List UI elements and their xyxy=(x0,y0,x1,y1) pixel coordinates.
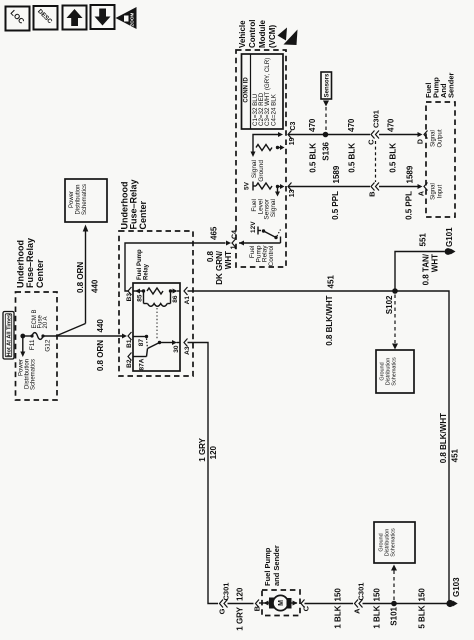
node at 5V resistor xyxy=(276,185,279,188)
pin 1 connector C4 xyxy=(226,230,239,249)
node 86 xyxy=(169,289,172,292)
svg-text:B2: B2 xyxy=(126,359,133,368)
connector C301 pin C xyxy=(367,110,381,145)
svg-text:1 GRY: 1 GRY xyxy=(235,606,244,630)
svg-text:451: 451 xyxy=(326,275,335,289)
svg-text:ZOOM: ZOOM xyxy=(130,13,135,27)
arrow to power distribution xyxy=(20,336,25,357)
svg-text:WHT: WHT xyxy=(430,254,439,272)
svg-text:Control: Control xyxy=(248,20,257,48)
button scroll up xyxy=(63,6,87,30)
VCM arrow icon xyxy=(278,28,298,46)
svg-text:20 A: 20 A xyxy=(43,316,49,328)
svg-text:Center: Center xyxy=(35,259,45,288)
svg-text:Sensors: Sensors xyxy=(324,73,330,97)
ground distribution schematics box (S101) xyxy=(374,522,415,563)
svg-text:(VCM): (VCM) xyxy=(268,25,277,48)
connector C301 pin G xyxy=(218,583,231,615)
svg-text:1 GRY: 1 GRY xyxy=(198,437,207,461)
svg-text:A: A xyxy=(352,608,361,614)
svg-text:13: 13 xyxy=(289,189,296,197)
wire 0.8 BLK/WHT 451 S102 to G103 xyxy=(395,291,450,604)
wire 5 BLK 150 S101 to G103 xyxy=(394,603,447,605)
svg-text:Fuel Pump: Fuel Pump xyxy=(137,249,143,280)
resistor signal ground xyxy=(256,145,272,151)
svg-text:30: 30 xyxy=(173,345,180,353)
wire 0.8 TAN/WHT 551 S102 to G101 xyxy=(395,252,445,292)
svg-text:0.8: 0.8 xyxy=(206,250,215,262)
svg-text:and Sender: and Sender xyxy=(272,545,281,586)
svg-text:150: 150 xyxy=(333,588,342,602)
fuel pump relay box xyxy=(133,283,180,371)
svg-text:0.8 BLK/WHT: 0.8 BLK/WHT xyxy=(325,295,334,345)
svg-text:5V: 5V xyxy=(244,181,251,190)
svg-text:M: M xyxy=(278,600,285,606)
5V supply xyxy=(244,181,257,190)
svg-text:C: C xyxy=(367,139,376,145)
vehicle control module U1 label xyxy=(238,19,277,48)
svg-text:86: 86 xyxy=(172,295,179,303)
svg-text:C301: C301 xyxy=(372,110,381,128)
svg-text:551: 551 xyxy=(419,233,428,247)
wire 1 GRY 120 C301 to pump B xyxy=(228,603,254,605)
pin B3 connector xyxy=(126,287,133,301)
signal ground arrow xyxy=(251,148,256,158)
switch lever xyxy=(148,341,162,349)
svg-text:Relay: Relay xyxy=(143,263,149,280)
dashed link S101 to ground schematics xyxy=(391,565,397,601)
svg-text:Schematics: Schematics xyxy=(390,528,396,557)
svg-text:Schematics: Schematics xyxy=(82,184,88,215)
svg-text:Signal: Signal xyxy=(270,198,277,217)
label 0.8 TAN/ WHT xyxy=(421,253,439,285)
button LOC xyxy=(6,7,30,31)
svg-text:1: 1 xyxy=(231,245,238,249)
svg-text:G101: G101 xyxy=(445,227,454,247)
pin 13 connector xyxy=(288,183,296,198)
underhood fuse-relay center label (relay) xyxy=(119,179,148,229)
svg-text:C3: C3 xyxy=(290,121,297,130)
svg-text:87A: 87A xyxy=(139,358,146,370)
svg-text:Fuse–Relay: Fuse–Relay xyxy=(25,238,35,288)
pin B1 connector xyxy=(126,332,133,348)
node 85 xyxy=(142,289,145,292)
svg-text:440: 440 xyxy=(96,319,105,333)
svg-text:S136: S136 xyxy=(322,141,331,160)
node feed junction xyxy=(20,334,25,339)
relay coil winding xyxy=(144,291,171,306)
relay control internal wire xyxy=(239,241,281,246)
svg-text:0.5 PPL: 0.5 PPL xyxy=(331,191,340,220)
12V supply xyxy=(250,221,261,235)
button zoom triangle xyxy=(116,7,137,29)
switch contact 87 xyxy=(133,335,148,347)
fuel level sense arrow xyxy=(275,188,280,197)
svg-text:G12: G12 xyxy=(45,339,52,352)
label Signal Output xyxy=(431,129,444,147)
wire to pin 13 xyxy=(279,184,285,189)
svg-text:A1: A1 xyxy=(184,296,191,305)
svg-text:F11: F11 xyxy=(29,339,36,350)
label Fuel Level Sensor Signal xyxy=(251,198,277,219)
svg-text:0.8 ORN: 0.8 ORN xyxy=(76,262,85,293)
svg-text:CONN ID: CONN ID xyxy=(243,77,249,103)
svg-text:D: D xyxy=(418,139,425,144)
fuel pump relay K1 label xyxy=(137,249,149,280)
underhood fuse-relay center box (fuse) xyxy=(16,292,58,400)
pin D connector xyxy=(418,131,428,145)
label Fuel Pump Relay Control xyxy=(249,245,275,267)
svg-text:B3: B3 xyxy=(126,293,133,302)
svg-text:C: C xyxy=(301,605,310,611)
svg-text:G: G xyxy=(218,608,227,614)
svg-text:B: B xyxy=(253,605,262,611)
svg-text:19: 19 xyxy=(289,137,296,145)
svg-text:150: 150 xyxy=(417,588,426,602)
VCM signal ground internal wire xyxy=(253,132,283,148)
svg-text:Signal: Signal xyxy=(431,130,437,147)
svg-text:0.5 PPL: 0.5 PPL xyxy=(405,191,414,220)
svg-text:Underhood: Underhood xyxy=(16,240,26,288)
coil output wire to A1 xyxy=(171,289,181,294)
resistor 5V pullup xyxy=(256,183,272,189)
ground G101 xyxy=(445,227,456,255)
relay coil resistor xyxy=(147,288,163,294)
VCM module box xyxy=(236,50,286,267)
svg-text:Input: Input xyxy=(438,185,444,199)
svg-text:451: 451 xyxy=(450,448,459,462)
svg-text:440: 440 xyxy=(91,279,100,293)
wire 1 BLK 150 pump C to C301 xyxy=(305,603,354,605)
svg-text:Vehicle: Vehicle xyxy=(238,20,247,48)
dashed link S102 to ground schematics xyxy=(392,295,398,350)
svg-text:465: 465 xyxy=(209,226,218,240)
wire 0.5 BLK 470 C301 to sender xyxy=(379,132,423,137)
svg-text:A3: A3 xyxy=(184,346,191,355)
pin B2 connector xyxy=(126,353,133,368)
fuel pump and sender box (top) xyxy=(426,102,455,217)
fuel pump and sender assembly label xyxy=(424,72,456,98)
svg-text:G103: G103 xyxy=(452,577,461,597)
svg-text:1 BLK: 1 BLK xyxy=(333,605,342,628)
svg-text:Control: Control xyxy=(268,245,275,267)
splice S102 xyxy=(385,288,398,314)
svg-text:0.5 BLK: 0.5 BLK xyxy=(309,143,318,173)
pin A connector xyxy=(419,183,428,197)
connector C301 pin B xyxy=(368,183,380,197)
wire branch to power distribution xyxy=(56,225,88,337)
svg-text:Output: Output xyxy=(438,129,444,147)
svg-text:120: 120 xyxy=(209,445,218,459)
fuse F1 ECM B 20A xyxy=(30,309,48,339)
svg-text:1589: 1589 xyxy=(406,165,415,183)
label Signal Ground xyxy=(251,159,265,181)
pin A3 connector xyxy=(184,339,191,355)
switch contact 87A xyxy=(133,349,148,371)
svg-text:85: 85 xyxy=(137,294,144,302)
ground distribution schematics box (S102) xyxy=(376,350,414,393)
wire 1 GRY 120 relay A3 to C301 xyxy=(188,343,219,604)
svg-text:B: B xyxy=(368,191,377,197)
pin C connector xyxy=(301,600,310,612)
svg-text:120: 120 xyxy=(235,587,244,601)
svg-text:Signal: Signal xyxy=(431,183,437,200)
wire 0.8 ORN 440 fuse to relay B1 xyxy=(43,334,127,339)
dashed link sensors to S136 xyxy=(323,101,329,132)
svg-text:Schematics: Schematics xyxy=(392,357,398,386)
relay coil wire xyxy=(133,289,144,294)
svg-text:B1: B1 xyxy=(126,339,133,348)
svg-text:S102: S102 xyxy=(385,295,394,314)
svg-text:C301: C301 xyxy=(356,583,365,601)
pin 19 connector C3 xyxy=(288,121,297,145)
svg-text:Hot At All Times: Hot At All Times xyxy=(6,314,12,357)
svg-text:C4=24 BLK: C4=24 BLK xyxy=(270,93,277,126)
svg-text:Center: Center xyxy=(138,200,148,229)
label 0.8 DK GRN/ WHT xyxy=(206,250,233,285)
svg-text:DK GRN/: DK GRN/ xyxy=(215,250,224,285)
label Signal Input xyxy=(431,183,444,200)
svg-text:150: 150 xyxy=(372,588,381,602)
pin A1 connector xyxy=(184,287,191,304)
wire 0.5 PPL 1589 C301 to sender xyxy=(379,184,423,189)
splice S101 xyxy=(389,601,398,626)
svg-text:470: 470 xyxy=(387,118,396,132)
wire relay B3 to VCM C4 0.8 DK GRN/WHT 465 xyxy=(125,243,226,291)
svg-text:S101: S101 xyxy=(389,606,398,625)
switch output wire 30 xyxy=(160,340,181,353)
fuel pump motor M1 xyxy=(259,595,298,610)
wire to fuse F11 xyxy=(23,335,32,337)
svg-text:12V: 12V xyxy=(250,221,257,233)
relay driver switch Q1 xyxy=(262,229,281,243)
button scroll down xyxy=(91,5,115,29)
hot at all times tag xyxy=(3,312,14,360)
svg-text:C301: C301 xyxy=(221,583,230,601)
wire 0.8 BLK/WHT 451 relay A1 to S102 xyxy=(188,290,396,292)
arrow to pin from resistor xyxy=(279,145,285,150)
underhood fuse-relay center label (fuse) xyxy=(16,238,46,288)
VCM CONN ID table xyxy=(242,54,284,129)
svg-text:Fuse–Relay: Fuse–Relay xyxy=(128,179,138,229)
svg-text:WHT: WHT xyxy=(224,251,233,269)
svg-text:0.5 BLK: 0.5 BLK xyxy=(389,143,398,173)
svg-text:Ground: Ground xyxy=(258,160,265,182)
svg-text:Module: Module xyxy=(258,19,267,48)
underhood fuse-relay center box (relay) xyxy=(119,231,193,376)
svg-text:1589: 1589 xyxy=(332,165,341,183)
svg-text:0.5 BLK: 0.5 BLK xyxy=(348,143,357,173)
svg-text:Schematics: Schematics xyxy=(31,359,37,390)
fuel pump and sender box (bottom) xyxy=(262,590,300,616)
wire 0.5 BLK 470 pin19 to S136 xyxy=(288,134,326,136)
splice S136 xyxy=(322,132,331,161)
svg-text:Sender: Sender xyxy=(447,72,456,98)
wire 1 BLK 150 C301 to S101 xyxy=(363,603,395,605)
wire 0.5 PPL 1589 pin13 to C301 xyxy=(288,186,370,188)
svg-text:Power: Power xyxy=(69,191,75,208)
power distribution schematics box (top) xyxy=(65,179,107,222)
svg-text:470: 470 xyxy=(308,118,317,132)
svg-text:0.8 ORN: 0.8 ORN xyxy=(96,340,105,371)
relay armature dashed link xyxy=(156,308,158,340)
svg-text:470: 470 xyxy=(347,118,356,132)
svg-text:1 BLK: 1 BLK xyxy=(372,605,381,628)
svg-text:5 BLK: 5 BLK xyxy=(417,605,426,628)
svg-text:C4: C4 xyxy=(232,230,239,239)
dashed C301 tie xyxy=(375,141,377,182)
svg-text:0.8 BLK/WHT: 0.8 BLK/WHT xyxy=(439,413,448,463)
button DESC xyxy=(34,6,58,30)
label Power Distribution Schematics (lower) xyxy=(19,359,37,390)
svg-text:0.8 TAN/: 0.8 TAN/ xyxy=(421,253,430,285)
wire 0.5 BLK 470 S136 to C301 xyxy=(326,134,371,136)
sensors reference box xyxy=(321,72,332,99)
svg-text:87: 87 xyxy=(138,339,145,347)
pin B connector xyxy=(253,600,262,612)
ground G103 xyxy=(446,577,461,607)
node at resistor right xyxy=(276,146,279,149)
connector C301 pin A xyxy=(352,583,365,614)
svg-text:Fuel Pump: Fuel Pump xyxy=(263,547,272,586)
svg-text:A: A xyxy=(419,191,426,196)
svg-text:Distribution: Distribution xyxy=(75,184,81,214)
fuel pump and sender label (bottom) xyxy=(263,545,281,586)
